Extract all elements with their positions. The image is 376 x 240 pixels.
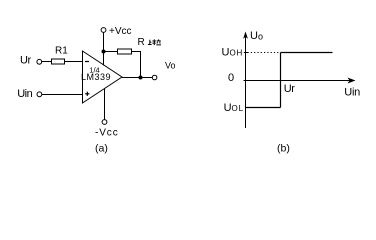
wire op-amp output to Vo terminal [122, 77, 152, 79]
graph x-axis Uin [244, 80, 352, 82]
wire pull-up resistor to corner [132, 51, 141, 53]
label UOH [222, 46, 244, 58]
label Uin x-axis [344, 86, 360, 98]
graph x-axis arrowhead [348, 78, 356, 84]
terminal circle Uin [37, 92, 42, 97]
terminal circle Vo [152, 75, 157, 80]
op-amp non-inverting pin plus sign [85, 92, 89, 96]
terminal circle +Vcc [101, 28, 106, 33]
label R pull-up [138, 37, 162, 48]
svg-text:(a): (a) [95, 143, 108, 155]
wire Uin terminal to non-inverting input [42, 94, 83, 96]
label 0 origin [228, 72, 234, 84]
svg-text:Uin: Uin [17, 88, 32, 100]
label R1 [55, 46, 68, 57]
svg-text:Uin: Uin [344, 86, 360, 98]
wire Ur terminal to R1 [41, 61, 51, 63]
svg-text:Ur: Ur [20, 54, 31, 66]
svg-text:LM339: LM339 [81, 72, 111, 82]
label UOL [224, 102, 244, 114]
wire R1 to inverting input [65, 61, 83, 63]
graph y-axis Uo [245, 36, 247, 128]
svg-text:+Vcc: +Vcc [109, 26, 132, 37]
svg-text:R1: R1 [55, 46, 68, 57]
glyph la [152, 39, 161, 45]
dotted line UOH level [248, 52, 281, 54]
svg-text:(b): (b) [277, 143, 290, 155]
wire op-amp bottom edge to -Vcc [104, 89, 106, 120]
tick UOH on y-axis [244, 52, 248, 54]
resistor R pull-up [118, 49, 132, 54]
terminal circle -Vcc [102, 120, 107, 125]
caption (b) [277, 143, 290, 155]
label Vo [165, 61, 176, 71]
label Ur threshold [284, 83, 295, 95]
op-amp U1 1/4 LM339 triangle [83, 51, 123, 103]
wire corner down to output node [140, 51, 142, 78]
transfer curve UOL segment [246, 107, 281, 109]
svg-text:Vo: Vo [165, 61, 176, 71]
wire junction to pull-up resistor [104, 51, 118, 53]
junction dot +Vcc / pull-up branch [102, 50, 106, 54]
svg-text:Ur: Ur [284, 83, 295, 95]
svg-text:0: 0 [228, 72, 234, 84]
caption (a) [95, 143, 108, 155]
resistor R1 [52, 59, 65, 64]
svg-text:UOH: UOH [222, 46, 244, 58]
label +Vcc [109, 26, 132, 37]
glyph shang [148, 40, 152, 45]
transfer curve UOH segment [281, 52, 333, 54]
op-amp inverting pin minus sign [85, 61, 89, 63]
label LM339 [81, 72, 111, 82]
svg-text:Uo: Uo [250, 30, 263, 42]
svg-text:R: R [138, 37, 145, 48]
graph y-axis arrowhead [243, 32, 248, 39]
label -Vcc [95, 128, 119, 139]
terminal circle Ur [37, 59, 42, 64]
label Uo [250, 30, 263, 42]
label 1/4 [89, 65, 99, 74]
wire +Vcc down to op-amp top edge [103, 32, 105, 65]
junction dot output node [139, 76, 143, 80]
transfer curve step at Ur [280, 53, 282, 108]
node Ur input label [20, 54, 31, 66]
svg-text:UOL: UOL [224, 102, 244, 114]
svg-text:-Vcc: -Vcc [95, 128, 119, 139]
node Uin input label [17, 88, 32, 100]
